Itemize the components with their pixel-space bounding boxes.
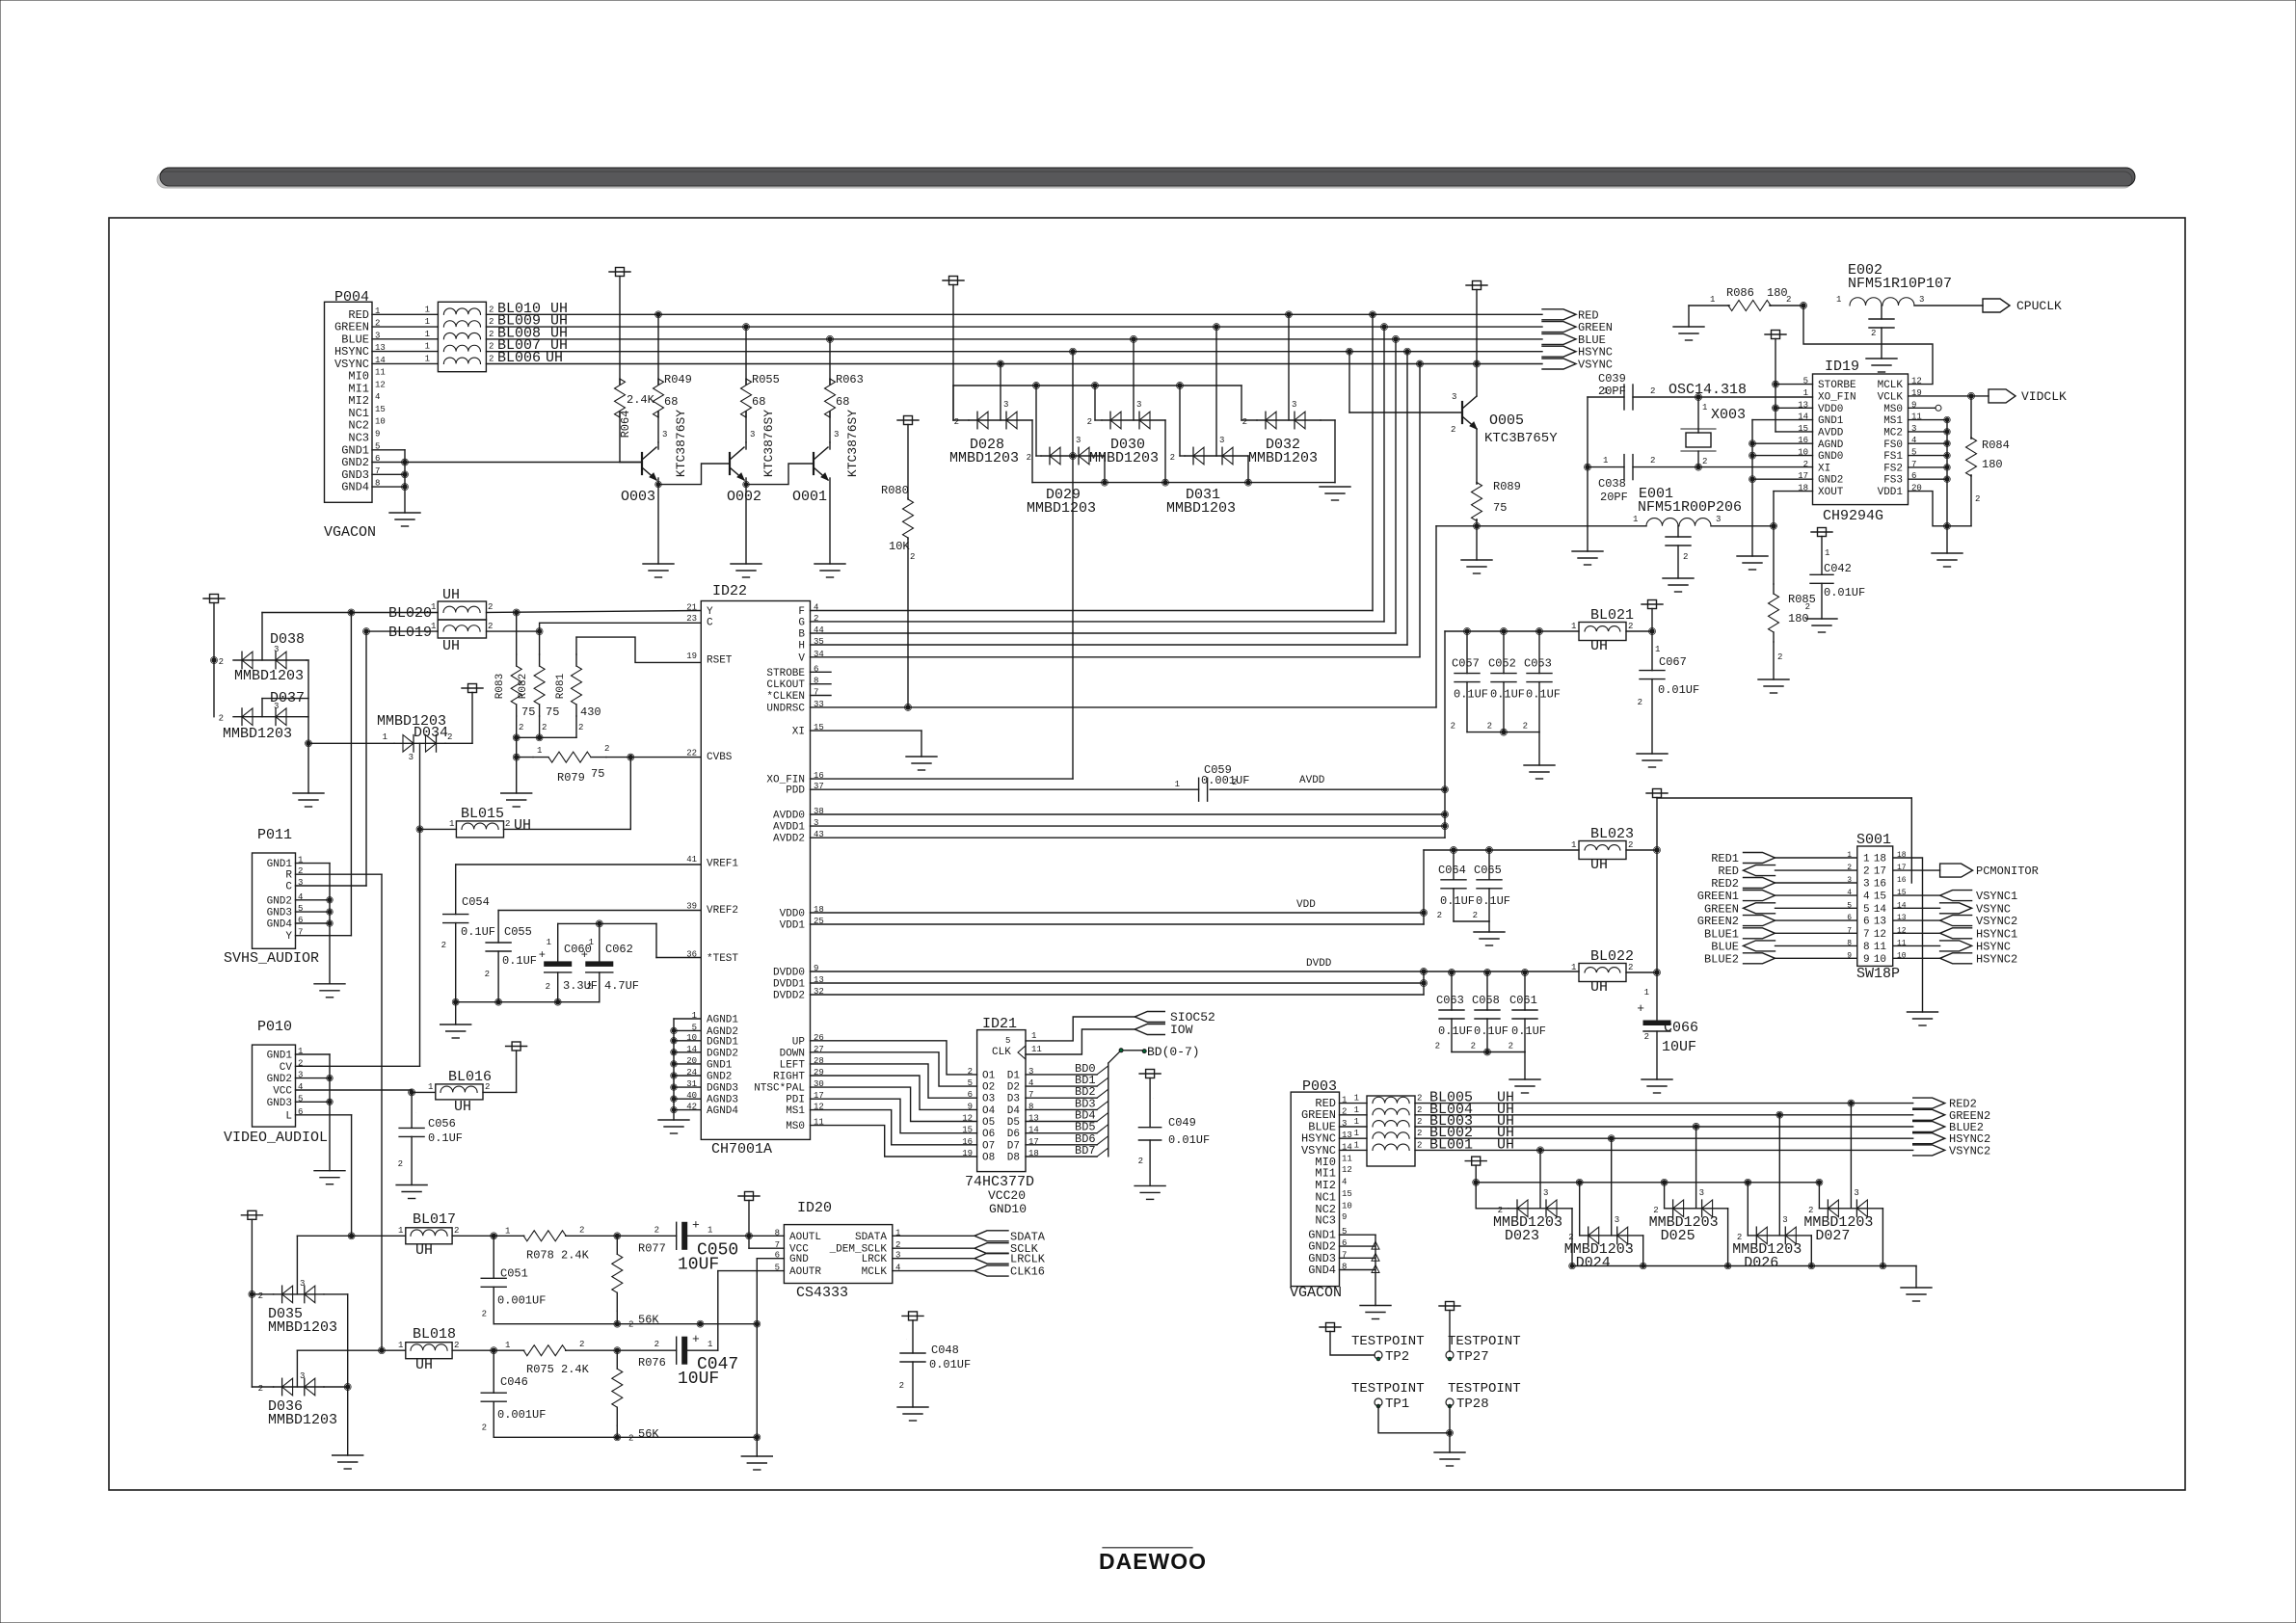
wire flag to D023 left xyxy=(1476,1208,1508,1210)
wire base drive from P004 GND2 xyxy=(405,462,642,464)
svg-text:SDATA: SDATA xyxy=(855,1232,887,1243)
wire BL021 out xyxy=(1626,630,1652,632)
svg-text:2: 2 xyxy=(1487,722,1492,732)
svg-text:2: 2 xyxy=(1975,494,1980,504)
svg-text:DVDD: DVDD xyxy=(1306,958,1332,970)
svg-text:C053: C053 xyxy=(1524,657,1552,671)
wire D026 left riser xyxy=(1747,1183,1749,1236)
resistor R076 56K xyxy=(616,1350,618,1369)
capacitor C056 0.1UF xyxy=(411,1092,413,1128)
svg-text:2: 2 xyxy=(219,657,224,667)
svg-text:9: 9 xyxy=(1863,954,1870,966)
junction C058 top xyxy=(1485,971,1489,974)
svg-text:PDD: PDD xyxy=(786,785,805,797)
svg-text:2: 2 xyxy=(1777,652,1782,662)
junction collector/VSYNC xyxy=(1475,361,1479,365)
wire P003 row BL001 xyxy=(1340,1149,1368,1151)
capacitor C058 0.1UF xyxy=(1486,972,1488,1010)
node RED2 arrow xyxy=(1913,1098,1945,1108)
wire D023 center to VSYNC2 xyxy=(1539,1150,1541,1208)
svg-text:5: 5 xyxy=(1863,904,1870,916)
svg-text:CVBS: CVBS xyxy=(707,752,733,763)
svg-text:ID20: ID20 xyxy=(797,1200,832,1216)
svg-text:41: 41 xyxy=(686,855,697,865)
svg-text:D024: D024 xyxy=(1576,1255,1611,1271)
wire P011 C to BL019 net xyxy=(296,885,367,887)
connector P003 (VGACON) xyxy=(1291,1092,1339,1287)
svg-text:2: 2 xyxy=(1417,1117,1422,1127)
junction C061 top xyxy=(1523,971,1527,974)
svg-text:10UF: 10UF xyxy=(1662,1039,1696,1055)
svg-text:HSYNC: HSYNC xyxy=(1976,940,2011,953)
svg-text:1: 1 xyxy=(505,1341,510,1350)
capacitor C048 0.01UF xyxy=(902,1315,923,1317)
wire D026 right drop xyxy=(1810,1236,1812,1266)
svg-text:KTC3876SY: KTC3876SY xyxy=(761,410,776,477)
svg-text:16: 16 xyxy=(1874,879,1886,891)
svg-text:9: 9 xyxy=(1342,1212,1347,1222)
svg-text:2: 2 xyxy=(482,1423,487,1432)
wire BLUE1 to S001 xyxy=(1775,932,1857,934)
svg-text:3: 3 xyxy=(834,430,839,439)
junction HSYNC/O005 base xyxy=(1348,350,1351,354)
svg-text:2: 2 xyxy=(1628,622,1633,631)
svg-text:R080: R080 xyxy=(881,484,909,497)
svg-text:TESTPOINT: TESTPOINT xyxy=(1448,1334,1521,1349)
wire MCLK feedback xyxy=(1803,306,1933,385)
svg-text:C046: C046 xyxy=(500,1375,528,1389)
wire to R079 and ground xyxy=(516,737,518,757)
crystal X003 xyxy=(1697,397,1699,433)
svg-text:R075 2.4K: R075 2.4K xyxy=(526,1363,590,1376)
wire O002 emitter to O001 base xyxy=(746,464,814,485)
junction VSYNC/D028 xyxy=(999,361,1002,365)
svg-text:FS0: FS0 xyxy=(1883,439,1903,451)
ground R079 node xyxy=(501,792,532,794)
diode D038 MMBD1203 xyxy=(203,598,225,599)
svg-text:1: 1 xyxy=(428,1082,433,1092)
svg-text:GND: GND xyxy=(789,1254,809,1265)
svg-text:+: + xyxy=(539,948,546,962)
svg-text:FS3: FS3 xyxy=(1883,475,1903,487)
junction BLUE2 dropper xyxy=(1694,1125,1697,1129)
svg-text:MMBD1203: MMBD1203 xyxy=(268,1319,337,1336)
junction C064 top xyxy=(1452,848,1455,852)
capacitor C060 3.3UF electrolytic xyxy=(557,923,559,962)
svg-text:0.1UF: 0.1UF xyxy=(1454,688,1488,702)
wire MS0 stub xyxy=(1909,407,1936,409)
svg-text:2: 2 xyxy=(219,714,224,724)
svg-text:VCC: VCC xyxy=(273,1085,292,1097)
wire TEST to C060/C062 xyxy=(558,922,656,924)
svg-text:VDD1: VDD1 xyxy=(780,920,806,932)
svg-text:GND1: GND1 xyxy=(1818,415,1844,427)
wire AGND1 xyxy=(674,1018,701,1020)
svg-text:3: 3 xyxy=(1543,1188,1548,1198)
wire VSYNC bus line xyxy=(486,363,1542,365)
junction GND0 xyxy=(1750,453,1754,457)
svg-text:R089: R089 xyxy=(1493,480,1521,493)
svg-text:2: 2 xyxy=(1628,963,1633,972)
node VIDCLK arrow xyxy=(1989,389,2016,403)
wire D031 center to GREEN bus xyxy=(1215,327,1217,456)
wire ID19 pin row 7 xyxy=(1909,466,1947,468)
svg-text:AOUTR: AOUTR xyxy=(789,1266,821,1278)
svg-text:2: 2 xyxy=(485,1082,490,1092)
svg-text:C056: C056 xyxy=(428,1117,456,1131)
capacitor C049 0.01UF xyxy=(1139,1073,1161,1075)
junction GREEN/D031 xyxy=(1215,325,1218,329)
ground P004 xyxy=(389,512,420,514)
junction VSYNC dropper xyxy=(1418,361,1422,365)
wire FS bus vertical xyxy=(1946,420,1948,526)
inductor BL023 xyxy=(1579,841,1626,860)
svg-text:CH7001A: CH7001A xyxy=(711,1141,772,1157)
capacitor C063 0.1UF xyxy=(1451,972,1453,1010)
svg-text:VDD0: VDD0 xyxy=(1818,404,1843,415)
ground below R089 xyxy=(1461,559,1492,561)
DAEWOO logo xyxy=(1103,1547,1192,1549)
junction C062 top xyxy=(598,921,601,925)
svg-text:GND2: GND2 xyxy=(267,895,292,907)
wire C057-C053 bottom rail xyxy=(1467,732,1539,733)
node SCLK arrow xyxy=(974,1243,1008,1254)
junction C054 bottom xyxy=(454,1000,458,1004)
node GREEN arrow xyxy=(1744,903,1775,914)
wire D036 center tap xyxy=(296,1350,298,1387)
wire UNDRSC to E001 xyxy=(811,706,1437,708)
svg-text:2: 2 xyxy=(1242,417,1247,427)
junction crystal top xyxy=(1696,395,1700,399)
wire STORBE xyxy=(1775,384,1813,386)
junction C057 top xyxy=(1465,629,1469,633)
wire AGND2 xyxy=(674,1029,701,1031)
junction GREEN dropper xyxy=(1382,325,1386,329)
svg-text:V: V xyxy=(798,652,805,664)
wire clamp lower rail xyxy=(1572,1265,1916,1267)
svg-text:MCLK: MCLK xyxy=(862,1266,888,1278)
svg-text:MMBD1203: MMBD1203 xyxy=(234,668,304,684)
svg-text:O7: O7 xyxy=(982,1140,995,1152)
svg-text:R084: R084 xyxy=(1982,439,2010,452)
svg-text:ID22: ID22 xyxy=(712,583,747,599)
svg-text:2: 2 xyxy=(1417,1105,1422,1115)
svg-text:2: 2 xyxy=(1138,1157,1143,1166)
svg-text:9: 9 xyxy=(375,430,380,439)
svg-text:D5: D5 xyxy=(1007,1117,1020,1129)
svg-text:R076: R076 xyxy=(638,1356,666,1370)
svg-text:2: 2 xyxy=(604,744,609,754)
resistor R089 75 xyxy=(1476,429,1478,484)
junction rail/D031 xyxy=(1178,384,1182,387)
svg-text:AVDD: AVDD xyxy=(1299,775,1325,786)
svg-text:16: 16 xyxy=(1897,876,1907,885)
svg-text:C066: C066 xyxy=(1664,1020,1698,1036)
wire SDATA xyxy=(893,1235,974,1237)
svg-text:AOUTL: AOUTL xyxy=(789,1232,821,1243)
ground VDD caps xyxy=(1474,931,1505,933)
svg-text:KTC3B765Y: KTC3B765Y xyxy=(1484,431,1558,446)
svg-text:XI: XI xyxy=(792,727,805,738)
node RED2 arrow xyxy=(1744,878,1775,889)
svg-text:C048: C048 xyxy=(931,1344,959,1357)
svg-text:AGND1: AGND1 xyxy=(707,1015,738,1026)
ground R086 xyxy=(1673,326,1704,328)
node SIOC52 arrow xyxy=(1135,1012,1164,1023)
wire cap bottom rail xyxy=(456,1001,600,1003)
junction rail/D029 xyxy=(1034,384,1038,387)
node HSYNC1 arrow xyxy=(1940,928,1972,939)
wire D034 center drop to BL015 xyxy=(419,743,421,829)
svg-text:2: 2 xyxy=(398,1159,403,1169)
svg-text:XOUT: XOUT xyxy=(1818,487,1844,498)
resistor R064 2.4K xyxy=(609,271,630,273)
svg-text:2: 2 xyxy=(1508,1042,1513,1051)
wire S001 to VSYNC2 xyxy=(1893,919,1940,921)
junction E002 input xyxy=(1802,304,1805,307)
junction RED dropper xyxy=(1371,312,1375,316)
junction XOUT/E001 xyxy=(1772,524,1775,528)
wire D029 left riser to rail xyxy=(1035,386,1037,456)
svg-text:3: 3 xyxy=(1219,436,1224,445)
svg-text:2: 2 xyxy=(899,1381,904,1391)
junction crystal bottom xyxy=(1696,465,1700,468)
svg-text:O3: O3 xyxy=(982,1094,995,1105)
wire P003 row BL004 xyxy=(1340,1114,1368,1116)
wire P011 Y to BL020 net xyxy=(296,935,352,937)
wire P011 R to BL018 net xyxy=(296,873,383,875)
svg-text:GND1: GND1 xyxy=(267,1051,293,1062)
wire ID19 pin row 3 xyxy=(1909,419,1947,421)
svg-text:2: 2 xyxy=(654,1340,659,1349)
svg-text:2: 2 xyxy=(1638,698,1642,707)
junction P004 GND4 xyxy=(403,485,407,489)
svg-text:0.01UF: 0.01UF xyxy=(1168,1133,1210,1147)
svg-text:UH: UH xyxy=(1590,857,1608,873)
svg-text:F: F xyxy=(798,606,805,618)
node VSYNC1 arrow xyxy=(1940,891,1972,901)
svg-text:BLUE: BLUE xyxy=(1711,940,1739,953)
node VSYNC arrow xyxy=(1940,903,1972,914)
inductor BL021 xyxy=(1579,623,1626,641)
wire RED2 to S001 xyxy=(1775,882,1857,884)
junction AVDD1 xyxy=(1443,824,1447,828)
svg-text:11: 11 xyxy=(1031,1045,1042,1054)
wire D025 center to BLUE2 xyxy=(1695,1127,1697,1209)
svg-text:D025: D025 xyxy=(1661,1228,1695,1244)
wire VDD rails xyxy=(811,912,1425,914)
svg-text:12: 12 xyxy=(375,380,386,389)
svg-text:0.1UF: 0.1UF xyxy=(1511,1024,1546,1038)
connector P011 (SVHS_AUDIOR) xyxy=(253,853,296,948)
svg-text:180: 180 xyxy=(1767,286,1788,300)
capacitor C053 0.1UF xyxy=(1538,631,1540,674)
wire resistor bottoms rail xyxy=(516,716,518,737)
inductor BL016 xyxy=(436,1084,483,1100)
svg-text:0.1UF: 0.1UF xyxy=(461,925,495,939)
connector P004 (VGACON) xyxy=(325,302,373,502)
wire VDD0 xyxy=(1775,407,1813,409)
svg-text:2: 2 xyxy=(489,354,494,363)
svg-text:1: 1 xyxy=(425,342,430,352)
wire NTSC*PAL to O5 xyxy=(811,1087,977,1121)
svg-text:3: 3 xyxy=(300,1371,305,1381)
svg-text:2: 2 xyxy=(546,982,550,992)
wire BLUE bus line xyxy=(486,338,1542,340)
wire RED to S001 xyxy=(1775,869,1857,871)
wire GREEN2 to S001 xyxy=(1775,919,1857,921)
svg-text:XI: XI xyxy=(1818,463,1830,474)
capacitor C050 10UF electrolytic xyxy=(676,1222,678,1249)
svg-text:430: 430 xyxy=(580,705,601,719)
svg-text:UH: UH xyxy=(442,587,460,603)
junction C055 bottom xyxy=(496,1000,500,1004)
wire GND1 xyxy=(674,1063,701,1065)
ground output clamps xyxy=(1901,1287,1932,1289)
wire GREEN to S001 xyxy=(1775,907,1857,909)
svg-text:CLKOUT: CLKOUT xyxy=(766,679,805,691)
svg-text:2: 2 xyxy=(1644,1032,1649,1042)
svg-text:2: 2 xyxy=(1702,457,1707,466)
wire RED2 line xyxy=(1415,1103,1913,1104)
junction R083 top xyxy=(515,610,519,614)
svg-text:MS0: MS0 xyxy=(1883,404,1903,415)
wire power rail to S001 xyxy=(1657,797,1911,799)
wire BLUE2 to S001 xyxy=(1775,957,1857,959)
svg-text:MMBD1203: MMBD1203 xyxy=(1166,500,1236,517)
svg-text:6: 6 xyxy=(1863,917,1870,928)
junction DVDD0 xyxy=(1422,970,1426,973)
resistor R081 430 xyxy=(576,637,701,662)
diode D023 MMBD1203 xyxy=(1508,1208,1572,1210)
capacitor C067 0.01UF xyxy=(1651,631,1653,671)
svg-text:MCLK: MCLK xyxy=(1878,380,1904,391)
wire BL015 input xyxy=(420,828,457,830)
wire GREEN2 line xyxy=(1415,1114,1913,1116)
capacitor C042 0.01UF xyxy=(1811,531,1832,533)
wire D027 left riser xyxy=(1818,1183,1820,1209)
junction CVBS node xyxy=(628,755,632,758)
junction FS bus bottom xyxy=(1945,524,1949,528)
wire TP2 flag xyxy=(1320,1326,1341,1328)
svg-text:GND2: GND2 xyxy=(707,1072,732,1083)
wire ID19 ground rail xyxy=(1751,420,1753,556)
wire RED1 to S001 xyxy=(1775,857,1857,859)
svg-text:0.01UF: 0.01UF xyxy=(929,1358,971,1371)
svg-text:2: 2 xyxy=(489,305,494,314)
svg-text:GND1: GND1 xyxy=(707,1059,733,1071)
svg-text:2: 2 xyxy=(954,417,959,427)
svg-text:2: 2 xyxy=(1803,460,1808,469)
capacitor C061 0.1UF xyxy=(1524,972,1526,1010)
wire S001 to VSYNC xyxy=(1893,907,1940,909)
svg-text:3: 3 xyxy=(1854,1188,1858,1198)
svg-text:2: 2 xyxy=(1650,456,1655,466)
wire TP28 to ground xyxy=(1449,1406,1451,1452)
wire G line to GREEN xyxy=(811,621,1385,623)
wire AVDD to BL021 xyxy=(1444,631,1446,838)
svg-text:RIGHT: RIGHT xyxy=(773,1072,805,1083)
svg-text:BL015: BL015 xyxy=(461,806,504,822)
wire BD0-BD7 outputs xyxy=(1026,1074,1097,1076)
svg-text:2: 2 xyxy=(1417,1129,1422,1138)
wire AGND4 xyxy=(674,1109,701,1111)
title bar graphic xyxy=(160,168,2135,186)
svg-text:C049: C049 xyxy=(1168,1116,1196,1130)
svg-text:VGACON: VGACON xyxy=(1290,1285,1342,1301)
svg-text:C057: C057 xyxy=(1452,657,1480,671)
svg-text:0.1UF: 0.1UF xyxy=(1440,894,1475,908)
svg-text:O1: O1 xyxy=(982,1070,996,1081)
svg-text:0.1UF: 0.1UF xyxy=(1490,688,1525,702)
svg-text:2: 2 xyxy=(1683,552,1688,562)
svg-text:VSYNC2: VSYNC2 xyxy=(1976,915,2017,928)
junction R083 bottom xyxy=(515,735,519,739)
junction P004 GND3 xyxy=(403,472,407,476)
svg-text:ID21: ID21 xyxy=(982,1016,1017,1032)
node BLUE2 arrow xyxy=(1744,953,1775,964)
node RED1 arrow xyxy=(1744,853,1775,864)
node LRCLK arrow xyxy=(974,1253,1008,1264)
svg-text:GREEN1: GREEN1 xyxy=(1697,890,1739,903)
ground E001 tap xyxy=(1663,577,1694,579)
svg-text:2: 2 xyxy=(579,1340,584,1349)
svg-text:*TEST: *TEST xyxy=(707,953,738,965)
svg-text:ID19: ID19 xyxy=(1825,359,1859,375)
svg-text:MMBD1203: MMBD1203 xyxy=(268,1412,337,1428)
svg-text:NC3: NC3 xyxy=(1315,1214,1336,1228)
svg-text:1: 1 xyxy=(431,622,436,631)
svg-text:GND10: GND10 xyxy=(989,1202,1027,1216)
node GREEN1 arrow xyxy=(1744,891,1775,901)
junction R089/E001 net xyxy=(1475,524,1479,528)
capacitor C065 0.1UF xyxy=(1488,850,1490,880)
resistor R078 2.4K xyxy=(522,1235,524,1237)
svg-text:15: 15 xyxy=(1342,1189,1352,1199)
inductor BL020 xyxy=(438,601,486,620)
svg-text:1: 1 xyxy=(1354,1094,1359,1104)
diode D035 MMBD1203 xyxy=(241,1214,262,1216)
svg-text:0.001UF: 0.001UF xyxy=(497,1293,546,1307)
svg-text:DOWN: DOWN xyxy=(780,1048,805,1059)
capacitor C057 0.1UF xyxy=(1466,631,1468,674)
svg-text:C052: C052 xyxy=(1488,657,1516,671)
svg-text:2: 2 xyxy=(1628,840,1633,850)
junction C063 top xyxy=(1450,971,1454,974)
wire ID19 pin row 4 xyxy=(1909,431,1947,433)
wire BLUE to S001 xyxy=(1775,945,1857,946)
node VSYNC2 arrow xyxy=(1913,1145,1945,1156)
svg-text:0.001UF: 0.001UF xyxy=(497,1408,546,1422)
svg-text:1: 1 xyxy=(431,602,436,612)
node HSYNC2 arrow xyxy=(1913,1133,1945,1144)
svg-text:KTC3876SY: KTC3876SY xyxy=(845,410,860,477)
svg-text:R077: R077 xyxy=(638,1241,666,1255)
svg-text:R064: R064 xyxy=(619,411,632,439)
svg-text:2: 2 xyxy=(1417,1140,1422,1150)
ground P010 xyxy=(314,1170,345,1172)
svg-text:8: 8 xyxy=(1863,942,1870,953)
svg-text:VIDCLK: VIDCLK xyxy=(2021,389,2067,404)
wire S001 to HSYNC xyxy=(1893,945,1940,946)
wire P003 row BL003 xyxy=(1340,1126,1368,1128)
wire audio line R078 xyxy=(452,1235,523,1237)
svg-text:33: 33 xyxy=(814,700,824,709)
svg-text:1: 1 xyxy=(1644,988,1649,998)
svg-text:75: 75 xyxy=(591,767,604,781)
svg-text:O002: O002 xyxy=(727,489,761,505)
diode D034 MMBD1203 xyxy=(308,742,394,744)
